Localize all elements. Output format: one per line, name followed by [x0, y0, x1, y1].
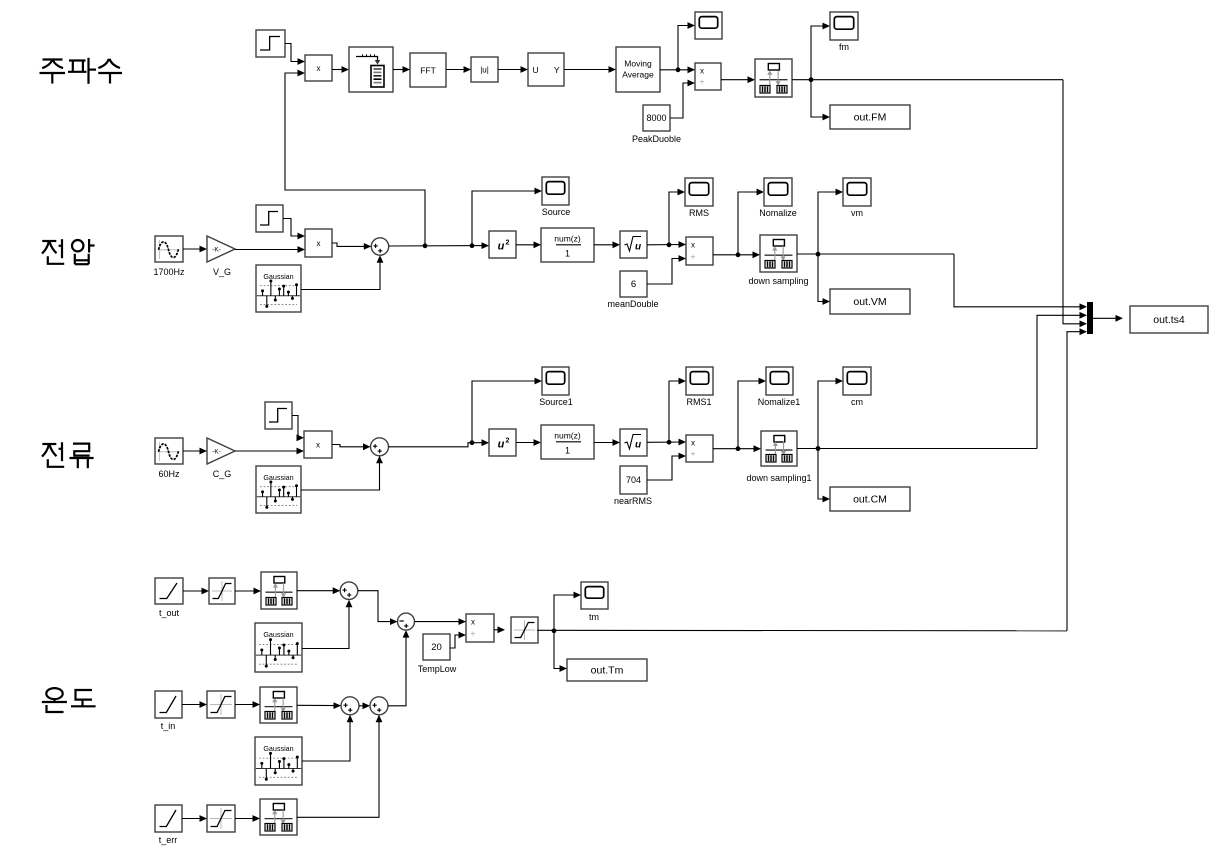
svg-text:20: 20 [431, 642, 442, 653]
svg-text:meanDouble: meanDouble [607, 299, 658, 309]
svg-text:out.ts4: out.ts4 [1153, 314, 1185, 326]
svg-text:Nomalize: Nomalize [759, 208, 797, 218]
svg-text:Gaussian: Gaussian [263, 630, 293, 639]
svg-text:x: x [316, 440, 320, 449]
svg-text:Gaussian: Gaussian [263, 744, 293, 753]
svg-text:TempLow: TempLow [418, 664, 457, 674]
svg-text:-K-: -K- [212, 449, 221, 456]
svg-text:u: u [498, 241, 505, 253]
svg-text:Gaussian: Gaussian [263, 272, 293, 281]
svg-text:60Hz: 60Hz [158, 469, 180, 479]
svg-text:-K-: -K- [212, 247, 221, 254]
svg-text:6: 6 [631, 279, 636, 290]
svg-text:1: 1 [565, 446, 570, 456]
svg-text:cm: cm [851, 397, 863, 407]
svg-text:÷: ÷ [471, 630, 476, 639]
svg-text:2: 2 [506, 240, 510, 247]
svg-text:out.VM: out.VM [853, 296, 886, 308]
svg-text:num(z): num(z) [554, 234, 581, 244]
svg-text:out.CM: out.CM [853, 494, 887, 506]
svg-text:PeakDuoble: PeakDuoble [632, 134, 681, 144]
svg-text:V_G: V_G [213, 267, 231, 277]
svg-text:Average: Average [622, 70, 654, 80]
svg-text:1700Hz: 1700Hz [153, 267, 185, 277]
svg-text:out.FM: out.FM [854, 112, 887, 124]
svg-text:Nomalize1: Nomalize1 [758, 397, 801, 407]
svg-text:Source: Source [542, 207, 571, 217]
svg-text:8000: 8000 [646, 113, 666, 123]
svg-text:x: x [691, 241, 695, 250]
svg-text:RMS1: RMS1 [686, 397, 711, 407]
svg-text:u: u [635, 440, 641, 451]
svg-text:Gaussian: Gaussian [263, 473, 293, 482]
svg-text:FFT: FFT [420, 66, 436, 76]
svg-text:2: 2 [506, 438, 510, 445]
svg-text:x: x [691, 439, 695, 448]
svg-text:nearRMS: nearRMS [614, 496, 652, 506]
svg-text:÷: ÷ [691, 450, 696, 459]
svg-text:vm: vm [851, 208, 863, 218]
svg-text:Moving: Moving [624, 59, 652, 69]
svg-text:t_err: t_err [159, 835, 178, 845]
svg-text:x: x [317, 239, 321, 248]
svg-text:C_G: C_G [213, 469, 232, 479]
svg-text:t_in: t_in [161, 721, 176, 731]
svg-text:fm: fm [839, 42, 849, 52]
svg-text:Y: Y [554, 65, 560, 75]
svg-text:U: U [533, 65, 539, 75]
svg-text:down sampling: down sampling [748, 276, 808, 286]
svg-text:x: x [317, 64, 321, 73]
svg-text:704: 704 [626, 475, 641, 485]
svg-text:1: 1 [565, 249, 570, 259]
svg-text:÷: ÷ [700, 78, 705, 87]
svg-text:|u|: |u| [480, 66, 489, 75]
svg-text:out.Tm: out.Tm [591, 665, 624, 677]
svg-text:tm: tm [589, 612, 599, 622]
svg-text:Source1: Source1 [539, 397, 573, 407]
svg-text:u: u [635, 242, 641, 253]
svg-text:x: x [700, 67, 704, 76]
svg-text:t_out: t_out [159, 608, 180, 618]
svg-text:RMS: RMS [689, 208, 709, 218]
svg-text:num(z): num(z) [554, 431, 581, 441]
svg-text:÷: ÷ [691, 253, 696, 262]
svg-text:down sampling1: down sampling1 [746, 473, 811, 483]
svg-text:u: u [498, 439, 505, 451]
svg-text:x: x [471, 618, 475, 627]
